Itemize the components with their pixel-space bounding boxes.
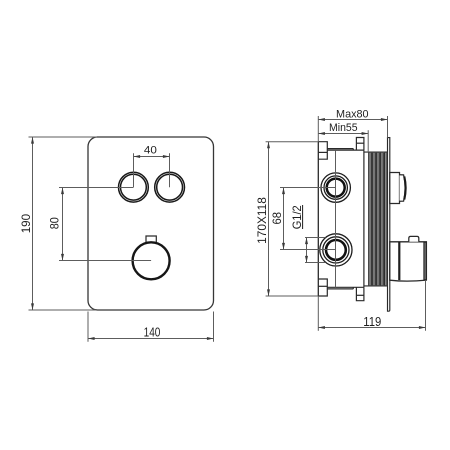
faceplate outline: [88, 137, 214, 310]
small knob (side): [390, 173, 400, 204]
handle tab on big knob: [146, 236, 156, 243]
dimension 80: [59, 188, 151, 261]
vertical centreline through ports: [335, 150, 337, 287]
body right edge: [363, 150, 365, 287]
dimension 140: [88, 312, 214, 342]
svg-text:140: 140: [144, 325, 161, 340]
threaded rib band: [368, 152, 387, 286]
svg-text:Min55: Min55: [329, 122, 358, 134]
svg-text:40: 40: [144, 145, 157, 157]
svg-text:80: 80: [47, 217, 61, 229]
dimension 40: [134, 153, 170, 187]
bottom stop screw: [356, 287, 364, 300]
svg-text:170X118: 170X118: [255, 197, 269, 244]
inlet port bottom (side): [320, 234, 352, 266]
dimension 119: [318, 280, 425, 331]
dimension G1/2: [305, 238, 326, 263]
top-left mounting lug: [318, 142, 327, 160]
svg-text:68: 68: [270, 212, 284, 225]
top stop screw: [356, 138, 364, 151]
knob circle left: [118, 172, 148, 202]
dimension Max80: [318, 116, 387, 142]
body bottom edge: [327, 287, 364, 289]
rib section top/bottom edges: [364, 151, 387, 153]
large knob (side): [390, 242, 427, 281]
safety button on large knob: [409, 236, 419, 241]
dimension 170X118: [266, 142, 319, 296]
body top edge: [327, 149, 364, 151]
svg-text:Max80: Max80: [336, 108, 369, 120]
svg-text:119: 119: [363, 314, 381, 329]
big thermostat knob: [133, 242, 170, 279]
dimension 190: [29, 137, 98, 310]
bottom-left mounting lug: [318, 279, 327, 296]
dimension 68: [280, 188, 336, 250]
inlet port top (side): [321, 173, 350, 202]
valve body left edge: [317, 142, 319, 296]
dimension Min55: [318, 130, 368, 152]
svg-text:190: 190: [19, 214, 33, 233]
svg-text:G1/2: G1/2: [290, 205, 304, 229]
knob circle right: [155, 172, 185, 202]
wall plate: [388, 138, 390, 312]
